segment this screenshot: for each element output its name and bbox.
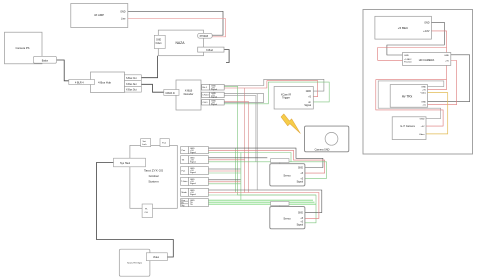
svg-text:Line: Line: [121, 18, 126, 21]
svg-text:T-Gain: T-Gain: [181, 181, 188, 183]
svg-text:+5V: +5V: [421, 126, 425, 128]
svg-text:Signal: Signal: [190, 183, 196, 185]
svg-text:3-BLR 4t: 3-BLR 4t: [165, 92, 175, 95]
svg-text:Video: Video: [420, 93, 426, 95]
svg-text:X-Bud: X-Bud: [206, 49, 214, 52]
svg-text:Signal: Signal: [190, 161, 196, 163]
svg-text:4 Bus Hub: 4 Bus Hub: [98, 81, 112, 85]
svg-text:X-Bus Out: X-Bus Out: [126, 89, 137, 92]
svg-text:Servo: Servo: [283, 174, 291, 178]
svg-text:Set: Set: [143, 140, 147, 143]
svg-text:System: System: [148, 180, 159, 184]
svg-text:G-Yi Camera: G-Yi Camera: [400, 125, 415, 128]
svg-text:Odwn: Odwn: [156, 43, 163, 45]
svg-text:Pit: Pit: [181, 201, 184, 204]
svg-text:GND: GND: [421, 87, 426, 89]
svg-text:Signal: Signal: [211, 89, 218, 91]
svg-text:Video: Video: [153, 256, 160, 259]
svg-text:NAZA: NAZA: [175, 41, 185, 45]
svg-text:GND: GND: [420, 119, 425, 121]
svg-text:Sys Haul: Sys Haul: [120, 162, 130, 165]
svg-text:4 BLR 4: 4 BLR 4: [75, 81, 84, 84]
svg-text:CH-1: CH-1: [203, 102, 209, 104]
svg-text:Signal: Signal: [190, 194, 196, 196]
svg-text:Balun: Balun: [42, 59, 49, 62]
svg-text:X-BLB: X-BLB: [185, 89, 193, 93]
svg-text:+5V: +5V: [445, 61, 449, 63]
svg-text:4X AMP: 4X AMP: [94, 13, 104, 17]
svg-text:Tilt: Tilt: [190, 203, 193, 206]
svg-text:Av TRx: Av TRx: [402, 95, 413, 99]
svg-text:Bit 4: Bit 4: [203, 86, 208, 89]
svg-text:HD CAMERA: HD CAMERA: [419, 58, 435, 62]
svg-text:Tarot ZYX Gyro: Tarot ZYX Gyro: [127, 262, 143, 265]
svg-text:Signal: Signal: [297, 181, 304, 183]
svg-text:S.Bus Out: S.Bus Out: [126, 77, 137, 80]
svg-text:Decoder: Decoder: [184, 92, 194, 96]
svg-text:CH: CH: [145, 212, 149, 214]
svg-text:Servo: Servo: [283, 217, 291, 221]
svg-text:GND: GND: [156, 40, 161, 42]
svg-text:Signal: Signal: [190, 172, 196, 174]
svg-text:+5V: +5V: [422, 90, 426, 92]
svg-text:Positive: Positive: [404, 61, 412, 64]
svg-text:Camera SND: Camera SND: [315, 148, 330, 151]
svg-text:GND: GND: [306, 90, 312, 93]
svg-text:Tilt: Tilt: [182, 159, 185, 162]
svg-text:Gimbal: Gimbal: [149, 174, 159, 178]
svg-text:GND: GND: [421, 102, 426, 104]
svg-text:Signal: Signal: [211, 104, 218, 106]
svg-text:Signal: Signal: [190, 152, 196, 154]
svg-text:+5 BEC: +5 BEC: [404, 59, 412, 61]
svg-text:XT60LB: XT60LB: [200, 35, 209, 38]
svg-text:Mode: Mode: [182, 192, 188, 194]
svg-text:GND: GND: [424, 21, 430, 24]
svg-text:Video: Video: [419, 134, 425, 136]
svg-text:+5 BEC: +5 BEC: [398, 26, 409, 30]
svg-text:+4.8V: +4.8V: [423, 30, 430, 33]
svg-text:Camera PS: Camera PS: [16, 46, 30, 50]
svg-text:GND: GND: [298, 212, 303, 214]
svg-text:Signal: Signal: [211, 97, 218, 99]
svg-text:CH-10: CH-10: [202, 95, 209, 97]
svg-text:GND: GND: [404, 55, 409, 57]
svg-text:Tarot ZYX GS: Tarot ZYX GS: [144, 169, 163, 173]
svg-text:Signal: Signal: [304, 104, 311, 107]
svg-text:GND: GND: [120, 10, 126, 13]
svg-text:X-Bus Net: X-Bus Net: [126, 83, 137, 86]
svg-text:Trigger: Trigger: [282, 97, 290, 100]
svg-text:Signal: Signal: [297, 225, 304, 227]
svg-text:GND: GND: [298, 167, 303, 169]
svg-text:GND: GND: [444, 55, 449, 57]
